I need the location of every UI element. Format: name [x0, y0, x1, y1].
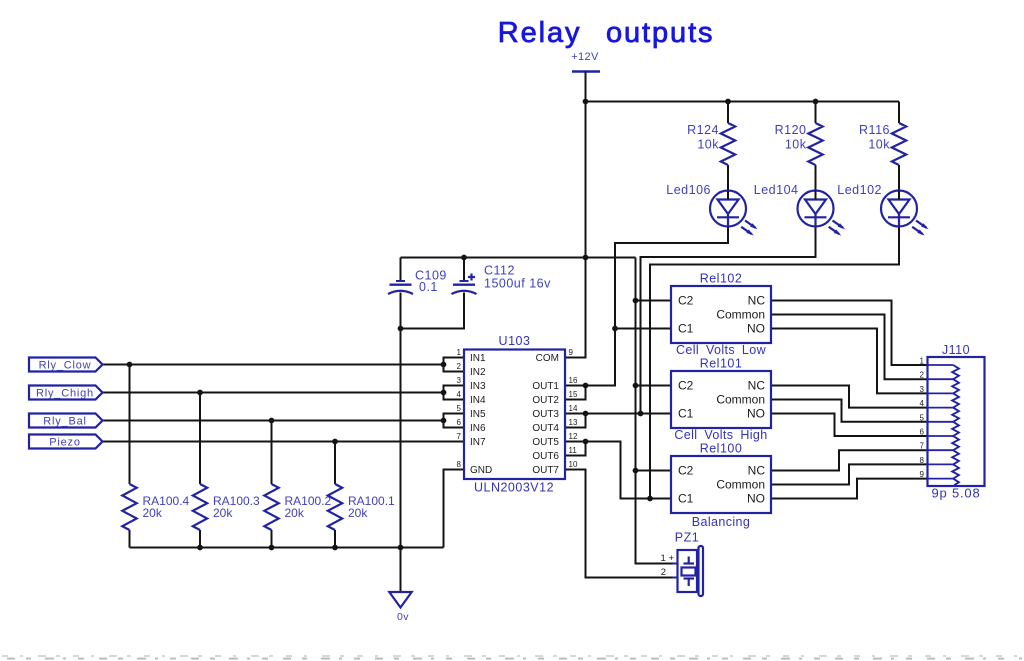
svg-text:IN2: IN2	[470, 367, 486, 378]
junction C2 rail at Rel101 C2	[633, 383, 639, 389]
J110 pin 3	[928, 392, 954, 394]
svg-text:C2: C2	[678, 464, 694, 478]
wire Rel100 Common to J110 pin 8	[771, 464, 928, 484]
junction C2 rail at Rel102 C2	[633, 298, 639, 304]
svg-text:R120: R120	[775, 123, 807, 137]
svg-text:14: 14	[569, 404, 578, 413]
node Rly_Chigh input flag	[29, 386, 103, 400]
wire RA100.3 top lead	[199, 393, 201, 485]
junction Rly_Chigh at RA100.3	[197, 390, 203, 396]
wire Rel100 C2 stub	[636, 470, 672, 472]
wire ground rail	[130, 547, 444, 549]
wire RA100.4 top lead	[129, 365, 131, 485]
svg-text:OUT2: OUT2	[532, 395, 559, 406]
junction C2 rail at Rel100 C2	[633, 468, 639, 474]
svg-text:20k: 20k	[348, 506, 368, 520]
wire RA100.3 bottom lead	[199, 530, 201, 548]
J110 pin 5	[928, 421, 954, 423]
svg-text:IN5: IN5	[470, 409, 486, 420]
J110 pin 8	[928, 463, 954, 465]
decor faint cropped text row at bottom	[2, 655, 1022, 657]
node Piezo input flag	[29, 435, 103, 449]
junction Led106 net at Rel102 C1 row	[612, 326, 618, 332]
wire U103 pin12/11 bracket	[565, 442, 586, 456]
wire R124 to Led106	[727, 165, 729, 200]
svg-text:3: 3	[920, 385, 925, 394]
wire +12V C2 rail down to PZ1 pin 1	[636, 258, 673, 564]
svg-text:Common: Common	[716, 393, 765, 407]
svg-text:C1: C1	[678, 322, 694, 336]
svg-text:C2: C2	[678, 294, 694, 308]
node Rly_Clow input flag	[29, 358, 103, 372]
svg-text:2: 2	[661, 567, 666, 578]
svg-text:Common: Common	[716, 308, 765, 322]
svg-text:5: 5	[920, 413, 925, 422]
svg-text:IN4: IN4	[470, 395, 486, 406]
wire R120 to Led104	[815, 165, 817, 200]
J110 pin 9	[928, 478, 954, 480]
wire OUT3 to Rel101 C1	[586, 413, 672, 415]
wire U103 GND pin 8 down to ground rail	[444, 470, 465, 548]
wire C112 top lead	[463, 258, 465, 281]
svg-text:0v: 0v	[397, 611, 409, 623]
svg-text:Rel102: Rel102	[700, 272, 743, 286]
svg-text:NC: NC	[748, 464, 766, 478]
LED Led104	[798, 191, 834, 227]
capacitor C112 1500uf 16v polarized	[460, 280, 469, 282]
wire Led102 cathode down-left to OUT5 net	[650, 227, 899, 499]
svg-text:6: 6	[920, 428, 925, 437]
wire Rel102 Common to J110 pin 2	[771, 315, 928, 380]
wire Rel102 NC to J110 pin 1	[771, 301, 928, 366]
svg-text:9: 9	[920, 470, 925, 479]
svg-text:1: 1	[920, 357, 925, 366]
svg-text:OUT5: OUT5	[532, 437, 559, 448]
svg-text:5: 5	[457, 404, 462, 413]
svg-text:Rel101: Rel101	[700, 357, 743, 371]
svg-text:OUT4: OUT4	[532, 423, 559, 434]
svg-text:Led104: Led104	[754, 183, 799, 197]
wire Rel101 C2 stub	[636, 385, 672, 387]
svg-text:Rly_Clow: Rly_Clow	[39, 360, 92, 372]
svg-text:10k: 10k	[785, 138, 807, 152]
wire Rel102 C2 stub	[636, 300, 672, 302]
svg-text:R116: R116	[859, 123, 890, 137]
J110 pin 1	[928, 364, 954, 366]
wire Rel100 NC to J110 pin 7	[771, 450, 928, 470]
svg-text:C1: C1	[678, 407, 694, 421]
wire Rly_Clow net	[103, 364, 444, 366]
svg-text:9: 9	[569, 348, 574, 357]
wire Rel102 NO to J110 pin 3	[771, 329, 928, 394]
wire R116 to Led102	[898, 165, 900, 200]
LED Led106	[710, 191, 746, 227]
junction Piezo at RA100.1	[332, 439, 338, 445]
svg-text:Balancing: Balancing	[692, 515, 751, 529]
junction Led102 net joins OUT5 wire	[647, 496, 653, 502]
wire capacitor top rail	[401, 257, 636, 259]
resistor RA100.1 20k	[328, 484, 342, 530]
svg-text:1: 1	[457, 348, 462, 357]
svg-text:U103: U103	[499, 334, 531, 348]
svg-text:C112: C112	[484, 264, 515, 278]
capacitor C109 0.1	[396, 280, 405, 282]
wire C109 bottom lead down to ground rail	[400, 293, 402, 548]
wire Piezo net to pin 7	[103, 441, 465, 443]
svg-text:Rly_Bal: Rly_Bal	[43, 416, 87, 428]
wire Rel101 Common to J110 pin 5	[771, 400, 928, 422]
resistor R124 10k	[721, 123, 735, 165]
wire RA100.1 bottom lead	[334, 530, 336, 548]
svg-text:NO: NO	[747, 492, 765, 506]
junction OUT3 bracket	[583, 411, 589, 417]
wire U103 pin16/15 bracket	[565, 386, 586, 400]
node Rly_Bal input flag	[29, 414, 103, 428]
svg-text:Relay outputs: Relay outputs	[498, 17, 715, 49]
wire Rel101 NO to J110 pin 6	[771, 414, 928, 437]
svg-text:20k: 20k	[285, 506, 305, 520]
svg-text:10: 10	[569, 460, 578, 469]
junction Rly_Clow at RA100.4	[127, 362, 133, 368]
wire RA100.2 top lead	[271, 421, 273, 485]
wire RA100.1 top lead	[334, 442, 336, 485]
svg-text:IN6: IN6	[470, 423, 486, 434]
wire U103 pin3/4 bracket	[444, 386, 465, 400]
junction +12V rail / top rail	[583, 99, 589, 105]
svg-text:NC: NC	[748, 294, 766, 308]
svg-text:Cell Volts High: Cell Volts High	[674, 428, 767, 442]
junction Led104 net joins OUT3 wire	[638, 411, 644, 417]
svg-text:OUT1: OUT1	[532, 381, 559, 392]
svg-text:1500uf 16v: 1500uf 16v	[484, 277, 551, 291]
wire R116 top feed	[898, 102, 900, 124]
junction Rly_Clow at bracket	[441, 362, 447, 368]
junction top rail at R120	[813, 99, 819, 105]
wire C112 bottom lead to C109 net	[401, 293, 465, 329]
wire U103 pin5/6 bracket	[444, 414, 465, 428]
svg-text:10k: 10k	[868, 138, 890, 152]
svg-text:+12V: +12V	[571, 51, 599, 63]
wire +12V rail down to U103 COM pin 9	[565, 72, 586, 358]
svg-text:12: 12	[569, 432, 578, 441]
wire Rel102 C1 stub	[615, 328, 671, 330]
wire R124 top feed	[727, 102, 729, 124]
wire R120 top feed	[815, 102, 817, 124]
J110 pin 2	[928, 378, 954, 380]
junction cap rail at C112	[461, 255, 467, 261]
svg-text:C1: C1	[678, 492, 694, 506]
wire RA100.2 bottom lead	[271, 530, 273, 548]
svg-text:0.1: 0.1	[419, 280, 438, 294]
svg-text:6: 6	[457, 418, 462, 427]
svg-text:20k: 20k	[213, 506, 233, 520]
junction Rly_Bal at RA100.2	[269, 418, 275, 424]
wire OUT5 routed to Rel100 C1	[586, 442, 672, 499]
resistor RA100.4 20k	[122, 484, 136, 530]
wire Rly_Bal net	[103, 420, 444, 422]
svg-text:OUT7: OUT7	[532, 465, 559, 476]
wire Led104 cathode down-left to OUT3 net	[641, 227, 816, 414]
junction OUT1 bracket	[583, 383, 589, 389]
svg-text:9p 5.08: 9p 5.08	[932, 486, 981, 501]
svg-text:13: 13	[569, 418, 578, 427]
wire U103 pin10 OUT7 to PZ1 pin 2	[565, 470, 673, 578]
svg-text:PZ1: PZ1	[675, 531, 699, 545]
J110 pin 7	[928, 449, 954, 451]
wire RA100.4 bottom lead	[129, 530, 131, 548]
resistor RA100.3 20k	[193, 484, 207, 530]
svg-text:2: 2	[920, 371, 925, 380]
svg-text:7: 7	[920, 442, 925, 451]
junction C112 bottom on C109 lead	[398, 326, 404, 332]
svg-text:4: 4	[457, 390, 462, 399]
svg-text:10k: 10k	[697, 138, 719, 152]
svg-text:8: 8	[920, 456, 925, 465]
svg-text:7: 7	[457, 432, 462, 441]
wire Rly_Chigh net	[103, 392, 444, 394]
svg-text:IN1: IN1	[470, 353, 486, 364]
wire U103 pin14/13 bracket	[565, 414, 586, 428]
svg-text:GND: GND	[470, 465, 492, 476]
wire top +12V horizontal rail	[586, 101, 900, 103]
wire U103 pin1/2 bracket	[444, 358, 465, 372]
svg-text:OUT3: OUT3	[532, 409, 559, 420]
wire Rel101 NC to J110 pin 4	[771, 386, 928, 408]
svg-text:IN3: IN3	[470, 381, 486, 392]
J110 pin 4	[928, 407, 954, 409]
junction ground rail RA100.1	[332, 545, 338, 551]
wire C109 top lead	[400, 258, 402, 281]
junction Rly_Chigh at bracket	[441, 390, 447, 396]
ground symbol 0v	[389, 592, 411, 608]
svg-text:Led106: Led106	[666, 183, 711, 197]
svg-text:Rel100: Rel100	[700, 442, 743, 456]
junction ground rail C109 branch	[398, 545, 404, 551]
wire Rel100 NO to J110 pin 9	[771, 479, 928, 499]
junction cap rail at +12V rail	[583, 255, 589, 261]
svg-text:COM: COM	[536, 353, 559, 364]
svg-text:J110: J110	[942, 343, 970, 357]
svg-text:15: 15	[569, 390, 578, 399]
svg-text:3: 3	[457, 376, 462, 385]
svg-text:IN7: IN7	[470, 437, 486, 448]
svg-text:8: 8	[457, 460, 462, 469]
J110 contact zigzag	[952, 365, 959, 485]
svg-text:OUT6: OUT6	[532, 451, 559, 462]
+12V power symbol	[572, 70, 600, 73]
resistor R120 10k	[808, 123, 822, 165]
svg-text:Rly_Chigh: Rly_Chigh	[36, 388, 94, 400]
J110 pin 6	[928, 435, 954, 437]
svg-text:2: 2	[457, 362, 462, 371]
svg-text:16: 16	[569, 376, 578, 385]
svg-text:R124: R124	[687, 123, 719, 137]
svg-text:Piezo: Piezo	[49, 437, 81, 449]
junction ground rail RA100.3	[197, 545, 203, 551]
svg-text:C2: C2	[678, 379, 694, 393]
svg-text:11: 11	[569, 446, 578, 455]
svg-text:NO: NO	[747, 322, 765, 336]
junction OUT5 bracket	[583, 439, 589, 445]
wire ground stem	[400, 548, 402, 593]
svg-text:NC: NC	[748, 379, 766, 393]
resistor RA100.2 20k	[264, 484, 278, 530]
svg-text:4: 4	[920, 399, 925, 408]
svg-text:20k: 20k	[143, 506, 163, 520]
svg-text:NO: NO	[747, 407, 765, 421]
junction top rail at R124	[725, 99, 731, 105]
svg-text:ULN2003V12: ULN2003V12	[474, 481, 554, 495]
wire Led106 cathode down-left to OUT1 net	[586, 227, 729, 386]
resistor R116 10k	[892, 123, 906, 165]
LED Led102	[881, 191, 917, 227]
svg-text:Common: Common	[716, 478, 765, 492]
svg-text:1 +: 1 +	[661, 553, 675, 564]
junction ground rail RA100.2	[269, 545, 275, 551]
junction Rly_Bal at bracket	[441, 418, 447, 424]
svg-text:Led102: Led102	[837, 183, 882, 197]
svg-text:Cell Volts Low: Cell Volts Low	[676, 343, 767, 357]
